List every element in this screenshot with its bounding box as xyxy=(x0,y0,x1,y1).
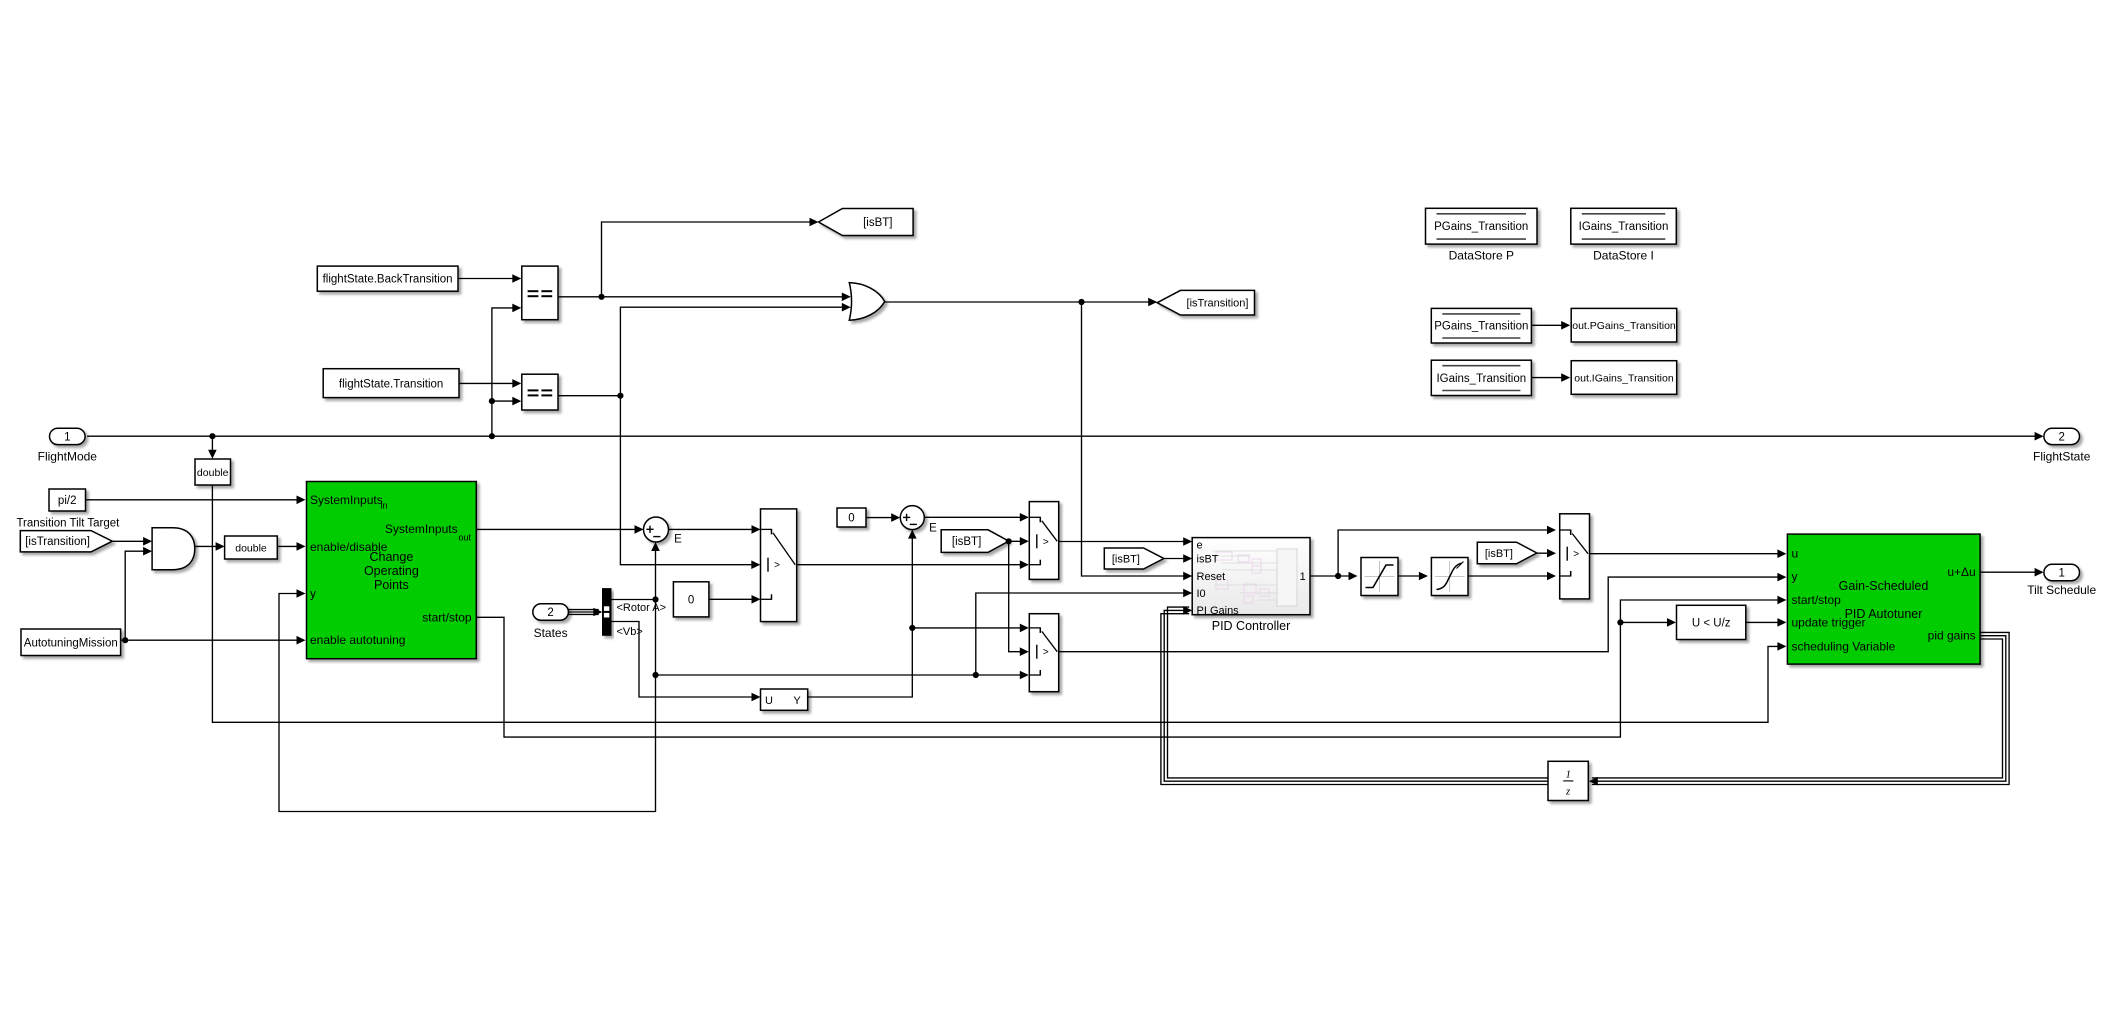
svg-text:>: > xyxy=(774,560,780,571)
svg-text:0: 0 xyxy=(848,513,854,525)
svg-text:1: 1 xyxy=(1565,769,1571,781)
svg-text:AutotuningMission: AutotuningMission xyxy=(24,637,118,649)
svg-text:E: E xyxy=(929,523,937,535)
svg-text:DataStore I: DataStore I xyxy=(1593,248,1654,262)
svg-text:>: > xyxy=(1573,549,1579,560)
svg-text:Tilt Schedule: Tilt Schedule xyxy=(2027,583,2096,597)
svg-text:DataStore P: DataStore P xyxy=(1449,248,1514,262)
svg-text:<Vb>: <Vb> xyxy=(617,626,643,638)
svg-text:IGains_Transition: IGains_Transition xyxy=(1436,373,1526,385)
svg-text:double: double xyxy=(235,543,267,555)
svg-text:SystemInputs: SystemInputs xyxy=(310,493,383,507)
svg-text:PGains_Transition: PGains_Transition xyxy=(1434,221,1528,233)
svg-text:isBT: isBT xyxy=(1197,554,1219,566)
svg-text:2: 2 xyxy=(2058,432,2064,444)
svg-text:IGains_Transition: IGains_Transition xyxy=(1579,221,1669,233)
svg-text:1: 1 xyxy=(64,432,70,444)
svg-text:1: 1 xyxy=(2058,568,2064,580)
svg-text:[isBT]: [isBT] xyxy=(952,536,981,548)
svg-text:out.IGains_Transition: out.IGains_Transition xyxy=(1574,373,1674,385)
svg-text:Change: Change xyxy=(370,550,414,564)
svg-text:enable autotuning: enable autotuning xyxy=(310,633,405,647)
svg-text:I0: I0 xyxy=(1197,588,1206,600)
svg-text:z: z xyxy=(1565,786,1571,798)
svg-text:[isBT]: [isBT] xyxy=(1112,554,1140,566)
svg-text:PID Autotuner: PID Autotuner xyxy=(1845,607,1923,621)
svg-text:flightState.BackTransition: flightState.BackTransition xyxy=(323,274,453,286)
svg-text:0: 0 xyxy=(688,595,694,607)
svg-text:out: out xyxy=(459,533,472,543)
svg-text:1: 1 xyxy=(1300,571,1306,583)
svg-text:PGains_Transition: PGains_Transition xyxy=(1434,321,1528,333)
svg-text:FlightMode: FlightMode xyxy=(38,449,98,463)
svg-text:U: U xyxy=(765,695,773,707)
svg-text:Y: Y xyxy=(793,695,801,707)
svg-text:States: States xyxy=(534,626,568,640)
svg-text:>: > xyxy=(1043,647,1049,658)
svg-text:out.PGains_Transition: out.PGains_Transition xyxy=(1572,320,1676,332)
svg-text:2: 2 xyxy=(547,607,553,619)
svg-text:Points: Points xyxy=(374,578,409,592)
svg-text:in: in xyxy=(381,501,388,511)
svg-text:[isTransition]: [isTransition] xyxy=(25,536,90,548)
svg-text:Transition Tilt Target: Transition Tilt Target xyxy=(16,517,120,529)
svg-text:U < U/z: U < U/z xyxy=(1692,618,1731,630)
svg-text:start/stop: start/stop xyxy=(422,610,472,624)
svg-text:pi/2: pi/2 xyxy=(58,495,77,507)
svg-text:Reset: Reset xyxy=(1197,571,1226,583)
svg-text:E: E xyxy=(674,534,682,546)
svg-text:>: > xyxy=(1043,537,1049,548)
svg-text:y: y xyxy=(1792,570,1798,584)
svg-text:flightState.Transition: flightState.Transition xyxy=(339,378,443,390)
svg-text:u+Δu: u+Δu xyxy=(1947,565,1975,579)
svg-text:PI Gains: PI Gains xyxy=(1197,605,1240,617)
svg-text:Gain-Scheduled: Gain-Scheduled xyxy=(1839,579,1929,593)
svg-text:y: y xyxy=(310,587,316,601)
svg-text:e: e xyxy=(1197,540,1203,552)
svg-text:scheduling Variable: scheduling Variable xyxy=(1792,639,1896,653)
svg-text:<Rotor A>: <Rotor A> xyxy=(617,602,667,614)
svg-text:start/stop: start/stop xyxy=(1792,593,1842,607)
svg-text:pid gains: pid gains xyxy=(1928,628,1976,642)
svg-text:Operating: Operating xyxy=(364,564,419,578)
svg-text:PID Controller: PID Controller xyxy=(1212,619,1291,633)
svg-text:SystemInputs: SystemInputs xyxy=(385,522,458,536)
svg-text:u: u xyxy=(1792,547,1799,561)
svg-text:[isTransition]: [isTransition] xyxy=(1187,298,1249,310)
svg-text:FlightState: FlightState xyxy=(2033,449,2091,463)
svg-text:double: double xyxy=(197,467,229,479)
svg-text:[isBT]: [isBT] xyxy=(1485,548,1513,560)
svg-text:[isBT]: [isBT] xyxy=(863,217,892,229)
